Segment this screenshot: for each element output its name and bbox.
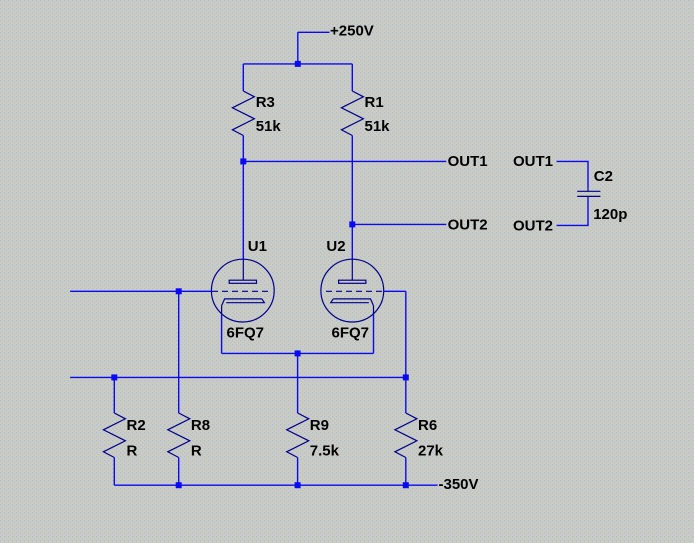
net label OUT1 (schematic side) xyxy=(448,153,488,170)
svg-text:U2: U2 xyxy=(326,238,345,255)
label R8 xyxy=(191,417,210,434)
junction OUT1 node xyxy=(240,158,246,164)
value 27k (R6) xyxy=(418,442,444,459)
junction bottom bus / R9 xyxy=(295,482,301,488)
svg-text:51k: 51k xyxy=(365,118,391,135)
label R2 xyxy=(127,417,146,434)
junction U1 grid / R8 xyxy=(176,288,182,294)
value 51k (R3) xyxy=(256,118,282,135)
svg-text:120p: 120p xyxy=(593,206,627,223)
wire: +250V stub horizontal xyxy=(298,31,330,33)
U2 grid (dashed) xyxy=(326,290,383,292)
wire: OUT2 net horizontal xyxy=(352,223,446,225)
triode U1 xyxy=(211,259,274,322)
wire: R6 bottom lead xyxy=(405,458,407,486)
wire: R8 vertical from grid line xyxy=(178,291,180,413)
wire: OUT1 to C2 top xyxy=(557,161,588,188)
svg-text:7.5k: 7.5k xyxy=(310,442,340,459)
wire: R1 top lead xyxy=(351,64,353,91)
wire: R3 bottom lead xyxy=(242,136,244,162)
wire: OUT1 net horizontal xyxy=(243,160,446,162)
U2 cathode xyxy=(331,299,374,306)
value R (R8) xyxy=(191,442,202,459)
U2 envelope circle xyxy=(321,259,384,322)
label R3 xyxy=(256,94,275,111)
U1 anode internal lead xyxy=(242,259,244,280)
svg-text:R: R xyxy=(127,442,138,459)
wire: -350V bottom bus xyxy=(114,484,437,486)
wire: R1 bottom lead down to OUT2 node xyxy=(351,136,353,225)
svg-text:27k: 27k xyxy=(418,442,444,459)
triode U2 (mirrored) xyxy=(321,259,384,322)
resistor R2 xyxy=(103,413,125,458)
wire: R9 bottom lead xyxy=(297,458,299,486)
value R (R2) xyxy=(127,442,138,459)
svg-text:-350V: -350V xyxy=(439,476,479,493)
U2 anode internal lead xyxy=(351,259,353,280)
U2 plate xyxy=(339,280,366,283)
value 6FQ7 (U1) xyxy=(227,324,265,341)
svg-text:R3: R3 xyxy=(256,94,275,111)
wire: R2 bottom lead xyxy=(113,458,115,486)
svg-text:R: R xyxy=(191,442,202,459)
svg-text:C2: C2 xyxy=(594,168,613,185)
junction input bus / right rail xyxy=(403,374,409,380)
label C2 xyxy=(594,168,613,185)
U1 cathode xyxy=(222,299,265,306)
label U1 xyxy=(248,238,267,255)
net label OUT2 (capacitor side) xyxy=(513,217,553,234)
svg-text:OUT2: OUT2 xyxy=(448,217,488,234)
U1 grid (dashed) xyxy=(212,290,269,292)
resistor R6 xyxy=(395,413,417,458)
svg-text:R8: R8 xyxy=(191,417,210,434)
resistor R9 xyxy=(287,413,309,458)
junction OUT2 node xyxy=(349,221,355,227)
value 7.5k (R9) xyxy=(310,442,340,459)
label R9 xyxy=(310,417,329,434)
U2 cathode internal lead xyxy=(373,306,375,315)
wire: R3 top lead xyxy=(242,64,244,91)
resistor R3 xyxy=(232,91,254,136)
svg-text:OUT1: OUT1 xyxy=(513,153,553,170)
wire: right rail vertical to R6 xyxy=(405,291,407,413)
svg-text:+250V: +250V xyxy=(330,22,374,39)
svg-text:OUT2: OUT2 xyxy=(513,217,553,234)
svg-text:R6: R6 xyxy=(418,417,437,434)
junction on top rail xyxy=(295,61,301,67)
svg-text:6FQ7: 6FQ7 xyxy=(332,324,370,341)
wire: lower input bus xyxy=(70,376,406,378)
value 6FQ7 (U2) xyxy=(332,324,370,341)
wire: top rail between R3 and R1 xyxy=(243,63,352,65)
svg-text:R2: R2 xyxy=(127,417,146,434)
wire: +250V stub vertical xyxy=(297,32,299,64)
svg-text:51k: 51k xyxy=(256,118,282,135)
wire: R2 top lead xyxy=(113,377,115,413)
node -350V label xyxy=(439,476,479,493)
value 120p (C2) xyxy=(593,206,627,223)
resistor R8 xyxy=(168,413,190,458)
label R6 xyxy=(418,417,437,434)
U1 cathode internal lead xyxy=(221,306,223,315)
net label OUT2 (schematic side) xyxy=(448,217,488,234)
junction bottom bus / R6 xyxy=(403,482,409,488)
wire: R9 vertical from cathode bus xyxy=(297,353,299,413)
wire: R8 bottom lead xyxy=(178,458,180,486)
junction input bus / R2 xyxy=(111,374,117,380)
junction cathode bus / R9 xyxy=(295,350,301,356)
wire: U2 cathode lead down xyxy=(373,315,375,354)
capacitor C2 xyxy=(577,188,600,199)
node +250V label xyxy=(330,22,374,39)
wire: U1 anode lead from OUT1 xyxy=(242,161,244,259)
svg-text:6FQ7: 6FQ7 xyxy=(227,324,265,341)
wire: C2 bottom to OUT2 xyxy=(557,199,588,225)
wire: U1 cathode lead down xyxy=(221,315,223,354)
resistor R1 xyxy=(341,91,363,136)
U1 envelope circle xyxy=(211,259,274,322)
wire: cathode bus between U1 and U2 xyxy=(222,352,374,354)
wire: U1 grid input line xyxy=(70,290,212,292)
wire: U2 grid to right rail xyxy=(383,290,406,292)
junction bottom bus / R8 xyxy=(176,482,182,488)
wire: U2 anode lead from OUT2 xyxy=(351,224,353,259)
value 51k (R1) xyxy=(365,118,391,135)
label U2 xyxy=(326,238,345,255)
svg-text:U1: U1 xyxy=(248,238,267,255)
svg-text:R9: R9 xyxy=(310,417,329,434)
svg-text:OUT1: OUT1 xyxy=(448,153,488,170)
svg-text:R1: R1 xyxy=(365,94,384,111)
net label OUT1 (capacitor side) xyxy=(513,153,553,170)
label R1 xyxy=(365,94,384,111)
U1 plate xyxy=(229,280,256,283)
